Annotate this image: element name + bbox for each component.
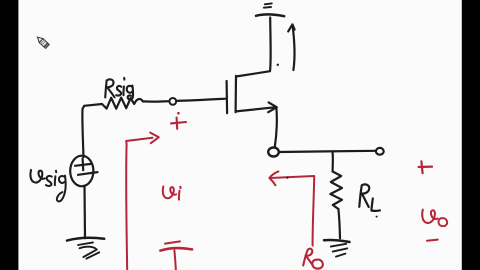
current arrow drain <box>288 24 294 70</box>
label vi <box>163 187 181 200</box>
label Rsig <box>105 78 133 99</box>
wire RL bottom <box>338 209 340 238</box>
wire vsig top to Rsig <box>82 104 102 157</box>
transistor Q1 gate bar <box>226 81 229 113</box>
wire RL top <box>332 152 334 171</box>
wire source down <box>275 108 277 148</box>
wire output <box>279 151 376 152</box>
transistor Q1 source arrow <box>236 102 277 112</box>
label vsig <box>30 170 65 201</box>
annotation arrow vi <box>126 133 159 270</box>
source vsig <box>70 156 97 187</box>
pen cursor <box>36 35 50 48</box>
resistor Rsig <box>103 98 143 109</box>
ground vsig <box>67 238 104 259</box>
label Ro <box>303 249 323 269</box>
node source output <box>268 148 279 157</box>
label RL <box>359 184 380 210</box>
ground RL <box>324 240 350 257</box>
label vo <box>422 210 447 227</box>
annotation minus output <box>427 240 438 241</box>
wire drain to VDD <box>236 18 271 77</box>
stray dot near RL <box>376 216 378 218</box>
wire vsig bottom <box>83 186 86 239</box>
power VDD rail <box>256 3 284 16</box>
annotation plus output <box>419 161 432 173</box>
annotation ground ref red T <box>160 241 192 269</box>
wire Rsig to node <box>143 100 169 103</box>
node output terminal <box>376 148 384 155</box>
wire node to gate <box>176 99 225 101</box>
node gate input <box>169 98 176 105</box>
annotation arrow Ro <box>269 171 314 245</box>
annotation plus input <box>171 112 186 129</box>
resistor RL <box>330 172 342 210</box>
transistor Q1 channel bar <box>235 76 238 112</box>
junction dot drain <box>277 64 279 66</box>
red annotations <box>126 112 438 270</box>
